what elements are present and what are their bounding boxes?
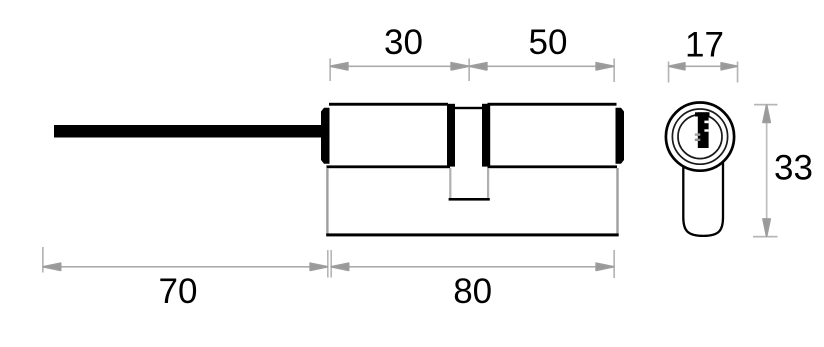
- dimension 70 extension line left: [42, 247, 44, 273]
- cam ring left bar: [447, 104, 455, 167]
- dimension 80 line: [331, 266, 614, 268]
- svg-text:70: 70: [159, 272, 198, 311]
- dimension 80 left arrow: [331, 263, 348, 270]
- dimension 30 right arrow: [451, 63, 468, 70]
- dimension 70 line: [43, 266, 328, 268]
- cylinder top edge right section: [488, 103, 617, 106]
- left end cap of cylinder: [321, 108, 330, 164]
- keyhole top cap: [695, 112, 710, 116]
- lower body left side (grey): [326, 168, 328, 235]
- dimension 17 extension line left: [668, 62, 670, 83]
- keyhole slot bar: [698, 112, 709, 148]
- front view body (rounded bottom): [683, 150, 723, 236]
- dimension 30 left arrow: [331, 63, 348, 70]
- cylinder top edge left section: [329, 103, 448, 106]
- dimension 80 right arrow: [596, 263, 613, 270]
- keyhole white notch upper right: [704, 121, 708, 124]
- dimension 50 line: [469, 66, 614, 68]
- svg-text:33: 33: [774, 149, 813, 188]
- cam ring gap top line: [455, 107, 482, 109]
- dimension 17 right arrow: [721, 63, 737, 70]
- dimension 80 extension line left: [330, 250, 332, 278]
- dimension 33 extension tick top: [754, 104, 778, 106]
- front view outer circle: [666, 103, 734, 171]
- cam lobe right side (grey): [487, 168, 489, 199]
- dimension 33 extension tick bottom: [753, 236, 778, 238]
- dimension 33 line: [766, 105, 768, 237]
- dimension 30 line: [330, 66, 469, 68]
- lower body right side (grey): [616, 168, 618, 234]
- svg-text:80: 80: [453, 272, 492, 311]
- right end cap of cylinder: [616, 108, 625, 164]
- dimension 17 extension line right: [737, 62, 739, 83]
- keyhole grey notch lower left: [695, 139, 701, 141]
- dimension 17 line: [669, 66, 738, 68]
- dimension 50 extension line right: [613, 59, 615, 83]
- front view middle circle: [672, 109, 727, 164]
- dimension 33 bottom arrow: [763, 219, 770, 236]
- dimension 30/50 shared extension line: [468, 59, 470, 82]
- dimension 70 left arrow: [43, 263, 60, 270]
- keyhole white notch mid right: [704, 129, 708, 131]
- dimension 80 extension line right: [613, 250, 615, 278]
- dimension 30 extension line left: [329, 59, 331, 82]
- svg-text:17: 17: [685, 26, 724, 65]
- svg-text:50: 50: [529, 23, 568, 62]
- svg-text:30: 30: [384, 23, 423, 62]
- rod / long spindle shaft: [54, 125, 322, 138]
- cam lobe bottom edge: [449, 198, 490, 201]
- front view inner circle: [678, 115, 722, 159]
- dimension 50 left arrow: [470, 63, 487, 70]
- dimension 33 top arrow: [763, 105, 770, 122]
- cylinder mid line left: [327, 165, 451, 168]
- cam lobe left side (grey): [449, 168, 451, 199]
- dimension 17 left arrow: [669, 63, 685, 70]
- keyhole grey notch upper left: [695, 133, 701, 135]
- cam ring right bar: [482, 104, 490, 167]
- dimension 50 right arrow: [596, 63, 613, 70]
- dimension 70 right arrow: [310, 263, 327, 270]
- lower body bottom edge: [326, 233, 619, 236]
- cylinder mid line right: [488, 165, 618, 168]
- dimension 70 extension line right: [327, 250, 329, 278]
